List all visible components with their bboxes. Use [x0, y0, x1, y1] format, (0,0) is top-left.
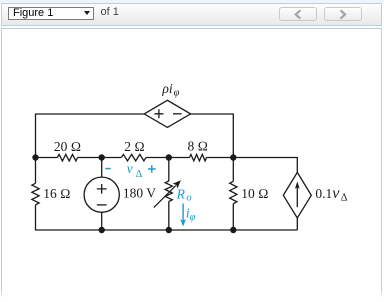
- arrow shaft inside current source U2: [296, 187, 298, 207]
- svg-text:10 Ω: 10 Ω: [241, 186, 268, 201]
- wire: current source bottom stub: [296, 218, 298, 230]
- resistor 2ohm zigzag: [121, 154, 146, 161]
- wire: Ro branch top stub: [168, 158, 170, 182]
- minus sign inside dependent source U1: [173, 113, 182, 115]
- resistor Ro zigzag (variable): [165, 181, 172, 202]
- label minus v_delta plus (cyan): [105, 168, 110, 170]
- svg-text:16 Ω: 16 Ω: [43, 186, 70, 201]
- node dot: 10ohm bottom: [230, 227, 236, 233]
- resistor 16ohm zigzag: [32, 183, 39, 205]
- svg-text:ρi: ρi: [161, 81, 172, 96]
- svg-text:φ: φ: [174, 88, 180, 99]
- svg-text:R: R: [176, 187, 186, 202]
- svg-text:0.1v: 0.1v: [315, 185, 340, 202]
- node dot: vsource bottom: [99, 227, 105, 233]
- wire: 10ohm branch bottom stub: [232, 204, 234, 230]
- dependent source U1 diamond (rho i_phi): [144, 100, 190, 127]
- wire: left rail top segment: [36, 114, 145, 183]
- resistor 8ohm zigzag: [190, 154, 207, 161]
- arrowhead inside current source U2: [295, 181, 300, 189]
- wire: voltage source bottom stub: [101, 212, 103, 230]
- current arrow i_phi (cyan): [182, 204, 184, 222]
- wire: middle rail seg4: [207, 157, 234, 159]
- plus sign inside voltage source: [97, 184, 107, 194]
- chevron right (toolbar): [341, 11, 345, 18]
- node dot: Ro bottom: [166, 227, 172, 233]
- svg-text:Δ: Δ: [341, 193, 348, 204]
- resistor 10ohm zigzag: [230, 181, 237, 203]
- svg-text:2 Ω: 2 Ω: [124, 139, 145, 154]
- svg-text:v: v: [127, 161, 133, 176]
- voltage source V1 circle 180V: [84, 177, 119, 212]
- dependent current source U2 diamond (0.1 v_delta): [283, 172, 311, 218]
- svg-text:8 Ω: 8 Ω: [187, 139, 208, 154]
- arrowhead of Ro variable arrow: [173, 180, 181, 188]
- wire: middle rail seg3: [146, 157, 190, 159]
- plus sign inside dependent source U1: [154, 109, 163, 118]
- wire: voltage source top stub: [101, 158, 103, 178]
- wire: left rail bottom segment: [36, 205, 298, 230]
- node dot: left/mid rail: [32, 154, 38, 160]
- node dot: 10ohm top: [230, 154, 236, 160]
- variable resistor arrow shaft Ro: [154, 186, 176, 208]
- node dot: Ro top: [166, 154, 172, 160]
- wire: right loop top: [233, 158, 297, 173]
- svg-text:Δ: Δ: [136, 169, 143, 180]
- minus sign inside voltage source: [97, 204, 107, 206]
- node dot: vsource top: [99, 154, 105, 160]
- resistor 20ohm zigzag: [57, 154, 77, 161]
- wire: Ro branch bottom stub: [168, 202, 170, 231]
- chevron left (toolbar): [296, 11, 300, 18]
- wire: top rail right + drop to mid rail: [191, 114, 234, 158]
- wire: middle rail seg1: [36, 157, 58, 159]
- svg-text:φ: φ: [190, 212, 196, 223]
- svg-text:20 Ω: 20 Ω: [54, 139, 81, 154]
- wire: 10ohm branch top stub: [232, 158, 234, 182]
- svg-text:o: o: [186, 193, 191, 204]
- svg-text:180 V: 180 V: [123, 186, 156, 201]
- wire: middle rail seg2: [78, 157, 122, 159]
